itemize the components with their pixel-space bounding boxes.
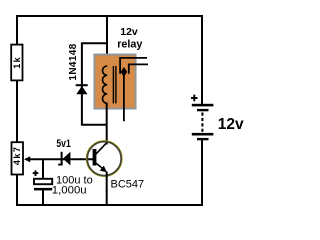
capacitor C1 100u-1000u — [34, 179, 52, 191]
wire top rail — [16, 15, 203, 17]
wire bottom rail — [16, 204, 203, 206]
wire base line — [29, 158, 93, 160]
wire diode bottom link — [81, 124, 108, 126]
wire right rail lower — [201, 140, 203, 207]
wire right rail upper — [201, 15, 203, 105]
wire capacitor branch — [42, 159, 44, 180]
svg-text:1,000u: 1,000u — [52, 185, 87, 197]
relay coil — [103, 66, 108, 103]
wire left rail — [16, 15, 18, 206]
resistor R1 1k — [11, 45, 22, 81]
svg-text:4k7: 4k7 — [12, 146, 22, 166]
battery plus sign — [191, 95, 198, 102]
wire emitter to bottom rail — [106, 172, 108, 206]
battery B1 12v — [192, 104, 214, 140]
relay armature — [123, 74, 125, 121]
pot wiper arrow — [24, 156, 30, 162]
svg-text:1k: 1k — [12, 56, 22, 69]
relay RLA1 body — [94, 55, 135, 109]
svg-text:12v: 12v — [120, 26, 138, 38]
wire relay coil to collector — [106, 103, 108, 145]
svg-text:12v: 12v — [218, 116, 244, 133]
zener diode 5v1 — [58, 152, 70, 166]
svg-text:1N4148: 1N4148 — [68, 43, 79, 80]
diode D1 1N4148 — [76, 43, 88, 125]
transistor Q1 BC547 — [86, 141, 122, 177]
svg-text:BC547: BC547 — [111, 179, 145, 191]
wire capacitor to bottom rail — [42, 190, 44, 206]
capacitor plus sign — [33, 170, 39, 176]
relay core — [112, 66, 114, 103]
relay contact 1 — [120, 58, 147, 74]
wire relay coil top lead — [106, 15, 108, 67]
svg-text:relay: relay — [117, 38, 142, 50]
wire diode top link — [81, 42, 108, 44]
potentiometer 4k7 — [12, 142, 24, 174]
svg-text:5v1: 5v1 — [56, 138, 71, 150]
relay contact 2 — [129, 64, 148, 73]
